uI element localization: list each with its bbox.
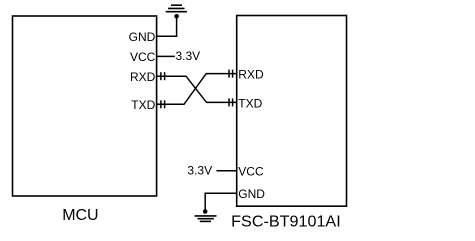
svg-text:TXD: TXD bbox=[131, 98, 155, 112]
tick marks MCU TXD pin bbox=[161, 100, 165, 108]
svg-text:MCU: MCU bbox=[62, 207, 98, 224]
svg-text:3.3V: 3.3V bbox=[176, 49, 201, 63]
tick marks MCU RXD pin bbox=[161, 72, 165, 80]
svg-text:RXD: RXD bbox=[238, 68, 264, 82]
svg-text:TXD: TXD bbox=[238, 96, 262, 110]
tick marks FSC RXD pin bbox=[229, 70, 233, 78]
svg-text:GND: GND bbox=[238, 187, 265, 201]
svg-text:VCC: VCC bbox=[238, 165, 264, 179]
tick marks FSC TXD pin bbox=[229, 98, 233, 106]
junction dot bottom ground bbox=[203, 209, 208, 214]
ground symbol (bottom, earth) bbox=[195, 216, 217, 222]
junction dot top ground bbox=[174, 14, 179, 19]
MCU box U1 bbox=[13, 16, 157, 196]
svg-text:RXD: RXD bbox=[130, 70, 156, 84]
svg-text:GND: GND bbox=[129, 30, 156, 44]
svg-text:VCC: VCC bbox=[130, 50, 156, 64]
wire MCU GND to top ground bbox=[157, 16, 177, 36]
wire FSC GND to bottom ground bbox=[205, 193, 237, 211]
wire MCU VCC to 3.3V bbox=[157, 55, 175, 57]
FSC-BT9101AI box U2 bbox=[237, 16, 347, 207]
wire MCU RXD to FSC TXD (crossover) bbox=[157, 76, 237, 102]
svg-text:3.3V: 3.3V bbox=[187, 164, 212, 178]
svg-text:FSC-BT9101AI: FSC-BT9101AI bbox=[231, 214, 341, 231]
ground symbol (top, earth) bbox=[166, 5, 187, 12]
wire MCU TXD to FSC RXD (crossover) bbox=[157, 74, 237, 105]
wire 3.3V to FSC VCC bbox=[217, 170, 237, 172]
